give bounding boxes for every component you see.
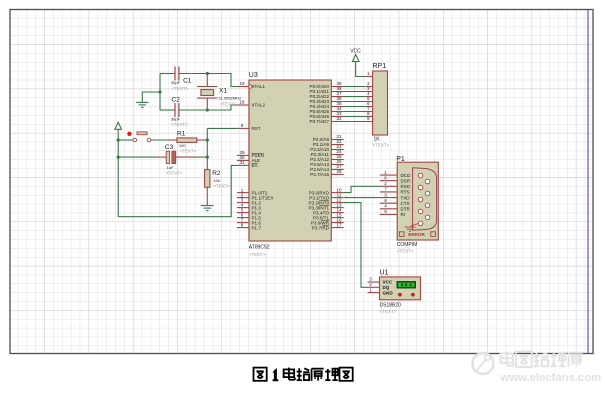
svg-text:<TEXT>: <TEXT>	[220, 102, 237, 107]
resistor pack RP1 body	[373, 63, 390, 148]
svg-text:P2.7/A15: P2.7/A15	[310, 172, 329, 177]
svg-text:RP1: RP1	[373, 63, 387, 70]
U3 left pin 9 RST	[237, 123, 261, 131]
svg-text:GND: GND	[383, 290, 394, 295]
temperature sensor U1 DS18B20 body	[380, 270, 421, 315]
U3 right pin 12	[309, 197, 344, 205]
U3 XTAL1 pin bubble	[249, 85, 252, 88]
wire left cap bus	[159, 74, 161, 111]
U3 right pin 35	[310, 101, 344, 109]
microcontroller U3 AT89C52 body	[249, 72, 331, 257]
RP1 pin 3	[366, 86, 373, 91]
U3 right pin 38	[310, 86, 344, 94]
RP1 pin 8	[366, 111, 373, 116]
svg-text:C2: C2	[172, 96, 181, 103]
svg-text:<TEXT>: <TEXT>	[213, 183, 230, 188]
svg-text:28: 28	[336, 169, 342, 174]
serial port P1 COMPIM body	[396, 156, 438, 254]
U3 right pin 14	[313, 207, 344, 215]
U3 right pin 15	[313, 212, 344, 220]
DB9 hole right 1	[425, 179, 430, 184]
wire P0.7 to RP1 pin 9	[344, 121, 366, 123]
svg-text:DS18B20: DS18B20	[380, 303, 402, 309]
wire VCC to RP1 pin 1	[356, 62, 366, 77]
DB9 hole left 2	[418, 185, 423, 190]
svg-text:10k: 10k	[213, 178, 219, 183]
svg-text:<TEXT>: <TEXT>	[171, 122, 188, 127]
resistor R1	[167, 131, 207, 154]
U1 pin 2 DQ	[368, 282, 390, 290]
wire EA to rail (bottom)	[118, 165, 237, 216]
wire to RST pin	[207, 127, 237, 129]
capacitor C2	[160, 96, 207, 127]
DB9 connector outline	[413, 168, 437, 230]
U3 right pin 10	[309, 187, 344, 195]
RP1 pin 5	[366, 96, 373, 101]
svg-text:30pF: 30pF	[171, 116, 181, 121]
svg-text:CTS: CTS	[401, 201, 410, 206]
svg-text:P3.7/RD: P3.7/RD	[312, 225, 330, 230]
P1 pin 7 RTS	[380, 187, 410, 195]
svg-text:<TEXT>: <TEXT>	[380, 309, 397, 314]
U3 left pin 31 EA	[237, 160, 259, 168]
U3 right pin 24	[311, 149, 344, 157]
wire P0.6 to RP1 pin 8	[344, 116, 366, 118]
svg-text:P0.7/AD7: P0.7/AD7	[310, 119, 330, 124]
svg-text:<TEXT>: <TEXT>	[179, 148, 196, 153]
svg-text:<TEXT>: <TEXT>	[166, 170, 183, 175]
RP1 pin 4	[366, 91, 373, 96]
DB9 hole left 1	[418, 173, 423, 178]
U3 left pin 19 XTAL1	[237, 81, 266, 89]
DB9 hole left 4	[418, 209, 423, 214]
junction cap bus	[158, 90, 161, 93]
svg-text:P1.7: P1.7	[252, 225, 262, 230]
U1 pin 3 VCC	[368, 277, 393, 285]
U3 left pin 29 PSEN	[237, 150, 264, 158]
svg-text:X1: X1	[219, 87, 227, 94]
junction C3 rail	[117, 156, 120, 159]
svg-text:<TEXT>: <TEXT>	[373, 143, 390, 148]
svg-text:U1: U1	[380, 270, 389, 277]
svg-text:DTR: DTR	[401, 207, 411, 212]
junction C3 right	[206, 156, 209, 159]
wire P0.2 to RP1 pin 4	[344, 96, 366, 98]
svg-text:ERROR: ERROR	[408, 232, 425, 237]
svg-text:DCD: DCD	[401, 173, 412, 178]
U3 right pin 25	[310, 154, 343, 162]
wire crystal top to XTAL1	[207, 74, 237, 87]
svg-text:www.elecfans.com: www.elecfans.com	[500, 372, 602, 384]
capacitor C3 (electrolytic)	[118, 144, 207, 176]
svg-text:XTAL1: XTAL1	[252, 84, 266, 89]
ground (crystal)	[136, 102, 148, 107]
U1 indicator dots	[398, 293, 415, 297]
wire P0.1 to RP1 pin 3	[344, 91, 366, 93]
P1 pin 9 RI	[380, 209, 405, 217]
svg-text:<TEXT>: <TEXT>	[249, 252, 266, 257]
wire P3.1 to P1 TXD	[344, 197, 380, 199]
U3 right pin 17	[312, 222, 344, 230]
U3 left pin 6 P1.5	[237, 212, 261, 220]
svg-text:COMPIM: COMPIM	[397, 242, 418, 248]
DB9 hole left 3	[418, 197, 423, 202]
U3 left pin 18 XTAL2	[237, 100, 266, 108]
wire P0.4 to RP1 pin 6	[344, 106, 366, 108]
RP1 pin 9	[366, 116, 373, 121]
DB9 hole right 3	[425, 203, 430, 208]
svg-text:<TEXT>: <TEXT>	[172, 86, 189, 91]
U3 right pin 11	[309, 192, 343, 200]
resistor R2	[205, 157, 231, 206]
U1 pin 1 GND	[368, 287, 394, 295]
U3 left pin 2 P1.1/T2EX	[237, 192, 274, 200]
U3 right pin 26	[310, 159, 343, 167]
svg-text:RXD: RXD	[401, 184, 411, 189]
wire P0.3 to RP1 pin 5	[344, 101, 366, 103]
svg-text:19: 19	[239, 81, 245, 86]
U3 left pin 7 P1.6	[237, 217, 261, 225]
watermark text 电子发烧友	[501, 352, 583, 368]
junction crystal top	[206, 72, 209, 75]
wire P3.0 to P1 RXD	[344, 186, 380, 192]
RP1 pin 1	[366, 71, 373, 76]
crystal X1	[197, 74, 241, 111]
svg-text:R1: R1	[177, 131, 186, 138]
U3 left pin 1 P1.0/T2	[237, 187, 268, 195]
svg-text:DSR: DSR	[401, 178, 411, 183]
svg-text:EA: EA	[252, 163, 259, 168]
svg-text:C1: C1	[183, 77, 192, 84]
RP1 pin 7	[366, 106, 373, 111]
svg-text:C3: C3	[165, 144, 174, 151]
P1 pin 4 DTR	[380, 204, 411, 212]
ground inside P1	[405, 224, 419, 232]
power arrow VCC	[352, 55, 359, 62]
U3 right pin 36	[310, 96, 344, 104]
P1 pin 3 TXD	[380, 192, 411, 200]
wire crystal bottom to XTAL2	[207, 105, 237, 110]
sheet edge marker (blue line)	[587, 10, 589, 353]
power arrow (reset rail)	[115, 122, 122, 129]
DB9 hole left 5	[418, 221, 423, 226]
svg-text:VCC: VCC	[383, 280, 393, 285]
U3 right pin 34	[310, 106, 344, 114]
capacitor C1	[160, 67, 207, 92]
U3 left pin 4 P1.3	[237, 202, 261, 210]
wire P0.5 to RP1 pin 7	[344, 111, 366, 113]
U3 right pin 27	[310, 164, 343, 172]
svg-text:U3: U3	[249, 72, 258, 79]
U3 right pin 39	[310, 81, 344, 89]
U3 right pin 33	[310, 111, 344, 119]
svg-text:1uF: 1uF	[167, 165, 174, 170]
svg-text:31: 31	[239, 160, 245, 165]
svg-text:DQ: DQ	[383, 285, 390, 290]
U3 right pin 22	[313, 139, 344, 147]
RP1 pin 2	[366, 81, 373, 86]
wire to crystal ground	[142, 92, 160, 102]
junction button rail	[117, 138, 120, 141]
DB9 hole right 2	[425, 191, 430, 196]
ground below R2	[201, 206, 213, 211]
push button (reset)	[127, 132, 151, 142]
svg-text:32: 32	[336, 116, 342, 121]
U3 right pin 21	[313, 134, 344, 142]
wire P3.2 to DS18B20 DQ	[344, 203, 368, 288]
svg-text:P1: P1	[396, 156, 405, 163]
U3 right pin 37	[310, 91, 344, 99]
wire RST node vertical	[206, 128, 208, 157]
U1 LCD display	[397, 281, 417, 289]
caption: 图 1 电路原理图	[254, 368, 353, 382]
U3 left pin 5 P1.4	[237, 207, 261, 215]
RP1 pin 6	[366, 101, 373, 106]
P1 pin 6 DSR	[380, 175, 411, 183]
wire P0.0 to RP1 pin 2	[344, 86, 366, 88]
wire power rail vertical	[117, 129, 119, 216]
watermark logo	[473, 353, 494, 374]
svg-text:AT89C52: AT89C52	[249, 245, 270, 251]
U3 left pin 30 ALE	[237, 155, 260, 163]
wire button to R1	[151, 139, 167, 141]
svg-text:11.0592MHz: 11.0592MHz	[219, 96, 241, 101]
wire rail to button	[118, 139, 133, 141]
svg-text:17: 17	[336, 222, 342, 227]
svg-text:<TEXT>: <TEXT>	[397, 249, 414, 254]
svg-text:TXD: TXD	[401, 195, 411, 200]
P1 pin 8 CTS	[380, 198, 410, 206]
U3 right pin 28	[310, 169, 343, 177]
junction R1 right	[206, 138, 209, 141]
P1 error indicator	[399, 232, 435, 237]
P1 pin 1 DCD	[380, 170, 411, 178]
P1 pin 2 RXD	[380, 181, 411, 189]
junction crystal bottom	[206, 108, 209, 111]
U3 right pin 16	[311, 217, 344, 225]
U3 right pin 13	[309, 202, 344, 210]
U3 right pin 32	[310, 116, 344, 124]
svg-text:R2: R2	[212, 170, 221, 177]
U3 left pin 8 P1.7	[237, 222, 261, 230]
svg-text:RI: RI	[401, 212, 406, 217]
U3 right pin 23	[310, 144, 343, 152]
svg-text:RTS: RTS	[401, 190, 410, 195]
DB9 hole right 4	[425, 215, 430, 220]
svg-text:XTAL2: XTAL2	[252, 103, 266, 108]
svg-text:RST: RST	[252, 126, 261, 131]
U3 left pin 3 P1.2	[237, 197, 261, 205]
svg-text:30pF: 30pF	[171, 80, 181, 85]
